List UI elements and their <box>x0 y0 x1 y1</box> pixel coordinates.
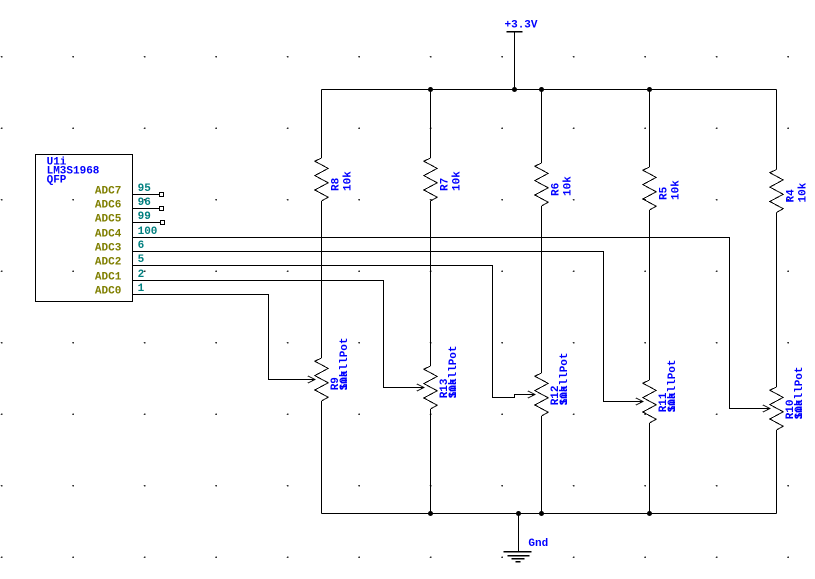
junction on +3.3V rail x=541.5 <box>539 87 544 92</box>
svg-text:10k: 10k <box>559 385 571 405</box>
junction on Gnd rail x=541.5 <box>539 511 544 516</box>
resistor R7 10k <box>424 90 464 367</box>
wire stub pin ADC5 <box>133 222 161 224</box>
svg-text:10k: 10k <box>794 399 806 419</box>
junction on Gnd rail x=649.5 <box>647 511 652 516</box>
no-connect square terminal ADC6 <box>160 207 164 211</box>
svg-text:10k: 10k <box>798 182 810 202</box>
svg-text:ADC5: ADC5 <box>95 214 122 226</box>
resistor R6 10k <box>535 90 575 374</box>
svg-text:6: 6 <box>138 240 145 252</box>
svg-text:10k: 10k <box>343 171 355 191</box>
svg-text:10k: 10k <box>452 171 464 191</box>
wire ADC3 to R11 wiper <box>133 252 643 406</box>
svg-text:96: 96 <box>138 197 151 209</box>
no-connect square terminal ADC7 <box>160 193 164 197</box>
wire stub pin ADC6 <box>133 208 160 210</box>
junction on +3.3V rail x=514.5 <box>512 87 517 92</box>
wire ADC0 to R9 wiper <box>133 295 315 384</box>
svg-text:ADC3: ADC3 <box>95 243 122 255</box>
IC U1 body outline <box>36 155 133 302</box>
net Gnd bottom rail wire <box>322 513 777 515</box>
svg-text:QFP: QFP <box>47 174 67 186</box>
resistor R5 10k <box>643 90 683 381</box>
wire stub pin ADC7 <box>133 194 160 196</box>
svg-text:5: 5 <box>138 254 145 266</box>
junction on +3.3V rail x=649.5 <box>647 87 652 92</box>
svg-text:ADC6: ADC6 <box>95 200 121 212</box>
ground symbol Gnd <box>504 514 549 562</box>
svg-text:2: 2 <box>138 269 145 281</box>
junction on Gnd rail x=518.5 <box>516 511 521 516</box>
svg-text:10k: 10k <box>448 378 460 398</box>
wire ADC1 to R13 wiper <box>133 281 424 392</box>
svg-text:ADC0: ADC0 <box>95 286 121 298</box>
potentiometer R9 10k SmallPot <box>315 337 351 513</box>
potentiometer R12 10k SmallPot <box>535 352 571 513</box>
junction on +3.3V rail x=430.5 <box>428 87 433 92</box>
svg-text:R4: R4 <box>786 189 798 203</box>
svg-text:+3.3V: +3.3V <box>505 20 538 32</box>
svg-text:10k: 10k <box>671 180 683 200</box>
svg-text:100: 100 <box>138 226 158 238</box>
potentiometer R11 10k SmallPot <box>643 359 679 513</box>
net +3.3V top rail wire <box>322 89 777 91</box>
wire ADC2 to R12 wiper <box>133 266 535 399</box>
potentiometer R13 10k SmallPot <box>424 345 460 513</box>
svg-text:95: 95 <box>138 183 152 195</box>
svg-text:R6: R6 <box>551 183 563 196</box>
svg-text:10k: 10k <box>563 176 575 196</box>
power symbol +3.3V <box>505 20 538 90</box>
svg-text:ADC4: ADC4 <box>95 229 122 241</box>
svg-text:ADC1: ADC1 <box>95 272 122 284</box>
svg-text:R8: R8 <box>331 177 343 191</box>
resistor R4 10k <box>770 90 810 388</box>
potentiometer R10 10k SmallPot <box>770 366 806 513</box>
svg-text:R5: R5 <box>659 186 671 200</box>
svg-text:10k: 10k <box>339 370 351 390</box>
svg-text:99: 99 <box>138 211 151 223</box>
svg-text:1: 1 <box>138 283 145 295</box>
svg-text:ADC7: ADC7 <box>95 186 121 198</box>
no-connect square terminal ADC5 <box>161 221 165 225</box>
svg-text:10k: 10k <box>667 392 679 412</box>
IC U1 LM3S1968 QFP <box>36 155 158 302</box>
svg-text:Gnd: Gnd <box>528 538 548 550</box>
svg-text:R7: R7 <box>440 178 452 191</box>
wire ADC4 to R10 wiper <box>133 238 770 413</box>
junction on Gnd rail x=430.5 <box>428 511 433 516</box>
svg-text:ADC2: ADC2 <box>95 257 121 269</box>
resistor R8 10k <box>315 90 355 359</box>
